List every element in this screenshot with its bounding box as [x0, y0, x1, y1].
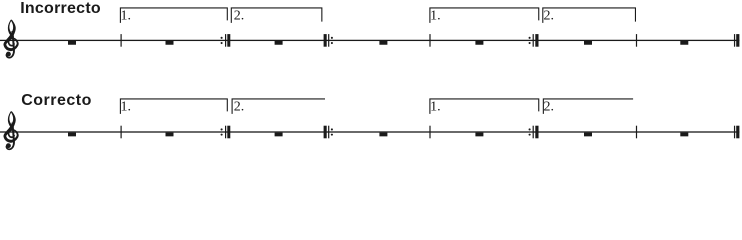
svg-text:2.: 2. [234, 100, 245, 115]
whole rest measure 6 [584, 41, 592, 45]
volta bracket 1 (first) [120, 99, 227, 114]
barline 1 [121, 126, 122, 139]
volta bracket 2 (second) [543, 8, 636, 23]
svg-text:Incorrecto: Incorrecto [20, 0, 101, 17]
whole rest measure 6 [584, 133, 592, 137]
volta bracket 1 (second) [430, 99, 539, 114]
volta bracket 1 (second) [430, 8, 539, 23]
barline 2 [429, 126, 430, 139]
barline 1 [121, 34, 122, 47]
svg-text:2.: 2. [234, 9, 245, 24]
staff line [0, 131, 740, 132]
end-repeat barline 2 [529, 34, 539, 47]
whole rest measure 4 [379, 133, 387, 137]
treble clef [4, 20, 19, 59]
whole rest measure 2 [166, 133, 174, 137]
whole rest measure 2 [166, 41, 174, 45]
whole rest measure 3 [275, 133, 283, 137]
volta bracket 2 (second) [543, 99, 633, 114]
whole rest measure 1 [68, 133, 76, 137]
whole rest measure 4 [379, 41, 387, 45]
svg-text:Correcto: Correcto [21, 92, 92, 109]
svg-text:1.: 1. [430, 100, 441, 115]
barline 3 [636, 34, 637, 47]
staff line [0, 40, 740, 41]
svg-text:1.: 1. [121, 100, 132, 115]
volta bracket 2 (first) [231, 8, 322, 23]
whole rest measure 5 [475, 133, 483, 137]
end-repeat barline 1 [221, 126, 231, 139]
whole rest measure 5 [475, 41, 483, 45]
svg-text:2.: 2. [544, 100, 555, 115]
svg-text:2.: 2. [544, 9, 555, 24]
whole rest measure 7 [680, 133, 688, 137]
whole rest measure 7 [680, 41, 688, 45]
start-repeat barline 1 [324, 126, 333, 139]
volta bracket 1 (first) [120, 8, 227, 23]
final barline [734, 34, 739, 47]
treble clef [4, 111, 19, 150]
whole rest measure 3 [275, 41, 283, 45]
final barline [734, 126, 739, 139]
volta bracket 2 (first) [232, 99, 325, 114]
barline 2 [429, 34, 430, 47]
end-repeat barline 2 [529, 126, 539, 139]
barline 3 [636, 126, 637, 139]
end-repeat barline 1 [221, 34, 231, 47]
svg-text:1.: 1. [430, 9, 441, 24]
svg-text:1.: 1. [121, 9, 132, 24]
whole rest measure 1 [68, 41, 76, 45]
start-repeat barline 1 [324, 34, 333, 47]
